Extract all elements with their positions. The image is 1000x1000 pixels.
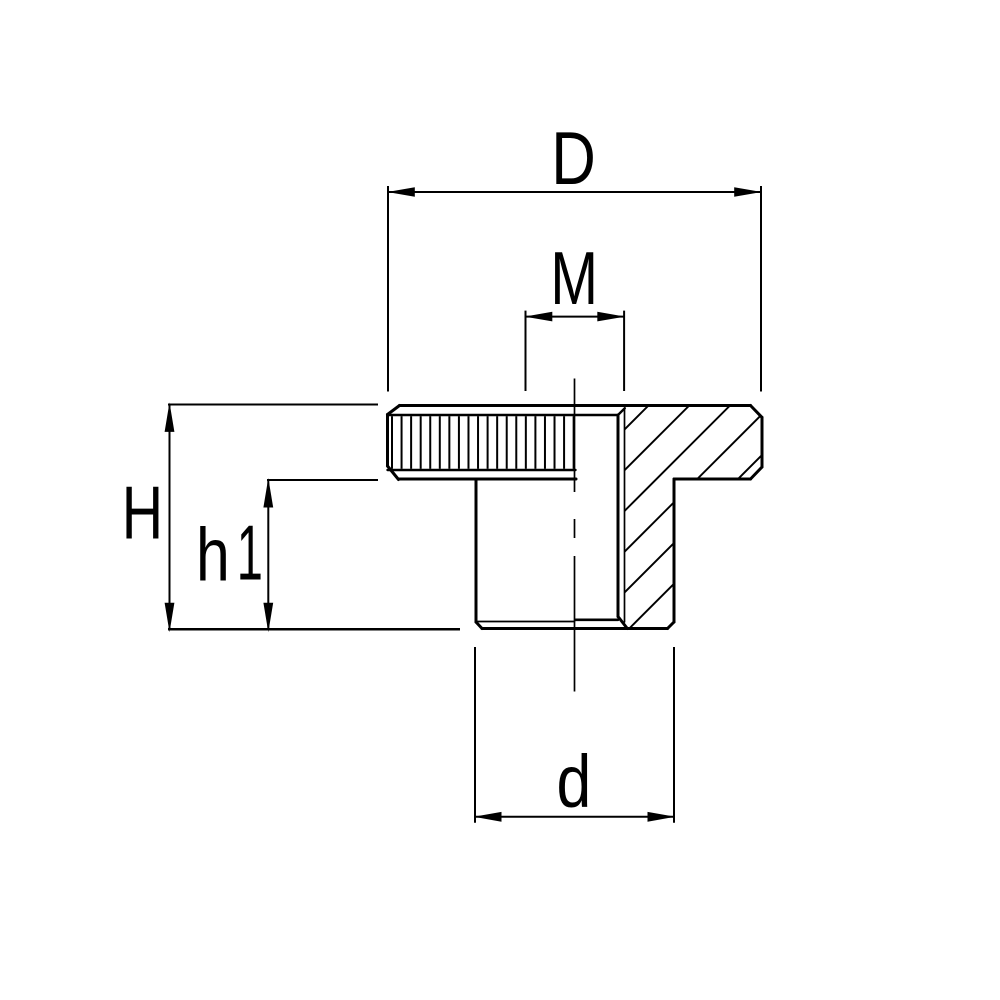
svg-text:H: H <box>122 472 163 555</box>
svg-text:M: M <box>550 237 598 320</box>
svg-text:d: d <box>556 740 591 823</box>
svg-text:h: h <box>196 513 230 597</box>
svg-text:1: 1 <box>237 509 263 596</box>
svg-text:D: D <box>551 116 596 200</box>
